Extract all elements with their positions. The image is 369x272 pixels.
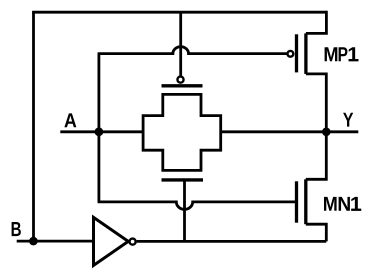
wire: B net left vertical (B up the left side) [32,12,35,241]
node B junction dot [29,237,38,246]
transistor MP1 gate bubble [288,51,294,57]
transistor MN1 channel plate [304,179,307,224]
transistor MN1 source lead (to Bbar net) [306,224,327,241]
wire: A input horizontal [60,130,143,133]
wire: A net to MP1 gate with hop over TG gate wire [98,47,287,54]
transistor MP1 channel plate [304,33,307,74]
transmission gate TG1 PMOS gate bubble [177,77,183,83]
transistor MP1 gate plate [295,34,298,72]
transistor MP1 drain lead (to Y) [306,74,326,132]
wire: inverter output (Bbar net) to MN1 source [137,240,327,243]
node A junction dot [95,127,104,136]
label A [64,113,76,127]
wire: B input horizontal to inverter [17,240,94,243]
inverter U1 triangle [94,217,129,265]
wire: TG output to Y [221,130,359,133]
transistor MN1 gate plate [295,181,298,222]
inverter U1 output bubble [130,239,136,245]
node Y junction dot [322,128,331,137]
wire: TG NMOS gate down to Bbar net [183,180,186,241]
label MP1 [325,47,359,61]
transmission gate TG1 top gate bar [162,84,203,87]
wire: top rail (B net) [32,11,326,14]
wire: A net to MN1 gate with hop under TG gate wire [98,202,296,210]
wire: TG PMOS gate from top rail [179,12,182,75]
transmission gate TG1 bottom gate bar [162,178,204,181]
transistor MP1 source lead (to top rail) [306,11,327,34]
label MN1 [324,197,361,211]
transistor MN1 drain lead (to Y) [306,132,327,180]
label Y [343,113,353,127]
label B [12,222,21,236]
transmission gate TG1 body (plus-shaped channel outline) [143,94,221,170]
wire: A net left vertical (gate feed) [98,54,101,202]
